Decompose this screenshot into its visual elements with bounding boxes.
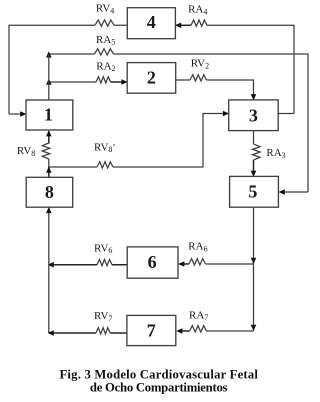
svg-text:Fig. 3 Modelo Cardiovascular F: Fig. 3 Modelo Cardiovascular Fetal <box>59 367 258 381</box>
label RA5 <box>96 34 115 47</box>
resistor RA6 <box>189 259 206 265</box>
label RA6 <box>188 241 207 254</box>
wire RA2 row: node to box 2 <box>49 81 122 83</box>
label RA3 <box>266 147 285 160</box>
wire RV7 row: box 7 left to left column <box>54 332 127 334</box>
wire RV2: box 2 right, over and down into box 3 top <box>176 80 254 94</box>
resistor RV8' <box>97 162 113 168</box>
svg-text:6: 6 <box>148 252 157 272</box>
svg-text:3: 3 <box>249 106 258 126</box>
svg-text:2: 2 <box>147 68 156 88</box>
caption line 2 <box>90 380 228 394</box>
resistor RA2 <box>96 77 111 83</box>
svg-text:8: 8 <box>45 182 54 202</box>
wire RA5 row: node above box 1, right side vertical, into box 5 <box>49 54 308 192</box>
arrow up at RA2 junction <box>46 79 52 85</box>
wire: right column from box 5 bottom to RA7 row <box>253 207 255 331</box>
wire RA4 row: right vertical to box 4 <box>175 25 294 113</box>
resistor RV8 between box 1 and junction node <box>42 131 50 167</box>
resistor RA5 <box>95 49 114 55</box>
arrow left into left column at RV6 <box>48 262 54 268</box>
resistor RA7 <box>190 326 207 332</box>
label RV7 <box>94 310 112 323</box>
arrow into box 3 left edge <box>223 111 229 117</box>
label RV8 <box>17 145 35 158</box>
svg-text:4: 4 <box>147 12 156 32</box>
resistor RV7 <box>96 328 110 334</box>
arrow down into box 3 top <box>251 94 257 100</box>
compartment box 7 <box>127 315 176 345</box>
resistor RV6 <box>97 259 112 265</box>
label RV8' <box>94 141 115 154</box>
wire: box 3 right edge to RA4 vertical <box>278 113 294 115</box>
label RV2 <box>191 58 209 71</box>
resistor RV2 <box>190 75 207 81</box>
compartment box 8 <box>26 177 72 207</box>
compartment box 6 <box>127 247 178 278</box>
compartment box 4 <box>127 8 175 39</box>
wire RV4 row: box4 left to left edge, down to box 1 <box>9 25 127 114</box>
arrow up at junction from box 8 <box>46 167 52 173</box>
arrow up into box 1 bottom <box>46 130 52 136</box>
wire RV8' row: junction to box 3 left <box>49 114 223 168</box>
resistor RA3 between box 3 and box 5 <box>253 131 261 171</box>
arrow down at RA6 junction <box>251 258 257 264</box>
svg-text:de Ocho Compartimientos: de Ocho Compartimientos <box>90 380 228 394</box>
arrow left into left column at RV7 <box>48 330 54 336</box>
compartment box 3 <box>229 100 279 131</box>
arrow up at RA5 junction <box>46 51 52 57</box>
arrow into box 7 right edge <box>176 328 182 334</box>
arrow down into box 5 top <box>251 171 257 177</box>
arrow into box 5 right edge <box>279 189 285 195</box>
arrow into box 2 left edge <box>121 79 127 85</box>
wire vertical from RA5 node to box 1 top <box>48 54 50 100</box>
arrow up into box 8 bottom <box>46 207 52 213</box>
svg-text:RV8’: RV8’ <box>94 141 115 154</box>
arrow into box 6 right edge <box>178 261 184 267</box>
caption line 1 <box>59 367 258 381</box>
arrow down at RA7 end <box>251 325 257 331</box>
label RV6 <box>94 242 112 255</box>
svg-text:1: 1 <box>44 104 53 124</box>
wire: box 8 top up to junction node <box>48 167 50 177</box>
label RA4 <box>188 4 207 17</box>
wire RA6 row: right column into box 6 <box>184 263 253 265</box>
svg-text:5: 5 <box>248 181 257 201</box>
arrow into box 1 left edge <box>20 111 26 117</box>
compartment box 5 <box>230 176 279 207</box>
label RV4 <box>96 3 114 16</box>
arrow into box 4 right edge <box>175 23 181 29</box>
wire RA7 row: right column into box 7 <box>182 330 253 332</box>
wire RV6 row: box 6 left to left column <box>54 264 128 266</box>
wire: left column from box 8 bottom to RV7 row <box>48 207 50 333</box>
svg-text:7: 7 <box>147 321 156 341</box>
label RA7 <box>189 309 208 322</box>
resistor RA4 <box>191 20 207 26</box>
resistor RV4 <box>95 20 114 26</box>
compartment box 2 <box>127 63 176 94</box>
compartment box 1 <box>26 100 73 130</box>
label RA2 <box>96 60 115 73</box>
